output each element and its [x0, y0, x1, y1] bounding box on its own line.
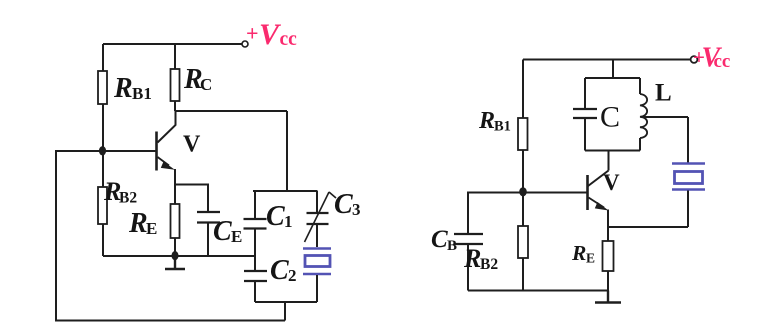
wire: RB2 (right) lower lead [522, 258, 524, 291]
wire: collector lead from tank [608, 151, 610, 171]
crystal B2 (right, blue) [672, 164, 705, 190]
wire: RC upper lead [174, 44, 176, 69]
ground symbol (right circuit) [595, 291, 621, 303]
inductor L on right edge of tank [639, 78, 641, 94]
ground symbol (left circuit) [165, 256, 185, 269]
transistor V (left) collector lead [158, 111, 176, 143]
svg-text:B2: B2 [119, 190, 137, 207]
label +Vcc (right, pink) [693, 43, 730, 74]
wire: RB1 (right) upper lead [522, 60, 524, 119]
wire: CE stub from emitter [175, 185, 208, 213]
wire: emitter rail to crystal [608, 226, 688, 228]
transistor V (left) emitter lead with arrow [158, 157, 170, 166]
svg-text:C: C [266, 201, 285, 232]
svg-text:3: 3 [352, 200, 361, 219]
wire: base lead to transistor V [103, 150, 156, 152]
svg-text:C: C [200, 75, 212, 94]
svg-text:R: R [478, 108, 495, 134]
svg-text:B1: B1 [132, 84, 152, 103]
transistor V (right) base bar [586, 175, 589, 210]
svg-text:R: R [113, 73, 133, 104]
svg-text:+: + [246, 21, 259, 46]
transistor V (right) emitter with arrow [589, 198, 605, 208]
wire: bottom rail RB2 to C1C2 junction [103, 255, 255, 257]
wire: feedback rise to loop bottom [284, 302, 286, 321]
wire: C1 upper lead [254, 191, 256, 219]
wire: tank loop top [253, 190, 318, 192]
wire: RB2 lower lead [102, 224, 104, 256]
capacitor C plates (tank) [573, 109, 597, 118]
wire: RC lower lead to collector node [174, 101, 176, 111]
svg-text:C: C [213, 216, 232, 247]
node: right Vcc terminal circle [691, 56, 698, 63]
wire: collector rail going right [175, 110, 287, 112]
wire: crystal (right) upper lead [687, 117, 689, 163]
svg-text:B2: B2 [480, 256, 498, 273]
wire: RE lower lead [174, 238, 176, 256]
svg-text:V: V [183, 132, 201, 158]
capacitor C3 variable arrow [305, 192, 330, 242]
resistor RB2 (left) body [98, 187, 107, 224]
svg-text:E: E [586, 251, 595, 266]
capacitor CE plates [197, 212, 220, 223]
svg-text:cc: cc [714, 51, 731, 72]
wire: RB1 upper lead [102, 44, 104, 71]
wire: base lead to transistor (right) [523, 192, 587, 194]
wire: inductor tap to crystal [642, 116, 688, 118]
wire: emitter down [174, 169, 176, 204]
LC tank box left edge with capacitor C gap [584, 78, 586, 151]
wire: feedback left run from base node [56, 151, 103, 321]
svg-text:B1: B1 [494, 119, 511, 135]
wire: right circuit top +Vcc rail [523, 59, 691, 61]
node: emitter-ground junction dot [172, 251, 179, 260]
resistor RE (right) body [603, 241, 614, 271]
capacitor C2 plates [244, 271, 267, 281]
wire: C1-C2 connection through emitter-rail tap [254, 229, 256, 272]
wire: Vcc stub to LC tank [612, 60, 614, 79]
label +Vcc (left, pink) [246, 18, 297, 51]
wire: CB branch from base node [468, 193, 523, 235]
transistor V (right) collector diagonal [588, 171, 609, 187]
wire: RB2 (right) upper lead [522, 192, 524, 226]
node: base junction dot (right circuit) [519, 187, 527, 196]
svg-text:C: C [600, 101, 620, 134]
wire: emitter down to RE [607, 210, 609, 242]
svg-text:cc: cc [280, 29, 298, 50]
svg-text:R: R [128, 208, 148, 239]
wire: right feed drop to tank loop top [286, 111, 288, 191]
wire: left circuit top +Vcc rail [103, 43, 242, 45]
transistor V (left) base bar [155, 132, 158, 171]
wire: crystal (right) lower lead to emitter rail [687, 191, 689, 228]
node: base junction dot (left circuit) [99, 146, 106, 155]
crystal B1 (left, blue) [303, 249, 331, 275]
wire: C3 upper lead [316, 191, 318, 213]
capacitor CB plates [454, 234, 483, 244]
resistor RB1 (left) body [98, 71, 107, 104]
wire: RB1 lower lead down to base node [102, 104, 104, 151]
resistor RC body [171, 69, 180, 101]
wire: CE lower lead to bottom rail [207, 223, 209, 257]
svg-text:1: 1 [284, 212, 293, 231]
svg-text:R: R [463, 244, 481, 273]
svg-text:B: B [447, 238, 457, 254]
wire: RB1 (right) lower lead to base node [522, 150, 524, 192]
svg-text:C: C [270, 255, 289, 286]
wire: right circuit bottom rail [468, 290, 608, 292]
wire: feedback bottom run [55, 320, 285, 322]
svg-text:2: 2 [288, 266, 297, 285]
wire: tank loop bottom [255, 301, 317, 303]
wire: C3 to crystal [316, 224, 318, 247]
wire: C2 lower lead [254, 281, 256, 302]
svg-text:C: C [334, 189, 353, 220]
svg-text:V: V [603, 170, 620, 195]
svg-text:E: E [146, 219, 157, 238]
resistor RB2 (right) body [518, 226, 528, 258]
svg-text:E: E [231, 227, 242, 246]
resistor RB1 (right) body [518, 118, 528, 150]
wire: crystal lower lead [316, 275, 318, 302]
svg-text:C: C [431, 226, 448, 253]
capacitor C1 plates [244, 219, 267, 229]
resistor RE (left) body [171, 204, 180, 238]
capacitor C3 plates [307, 213, 329, 224]
svg-text:R: R [571, 241, 586, 265]
wire: CB lower lead [467, 244, 469, 291]
node: left Vcc terminal circle [242, 41, 248, 47]
wire: RE (right) lower lead [607, 271, 609, 291]
svg-text:L: L [655, 80, 672, 107]
wire: RB2 upper lead from base node [102, 151, 104, 187]
LC tank box: top and bottom [585, 78, 640, 151]
